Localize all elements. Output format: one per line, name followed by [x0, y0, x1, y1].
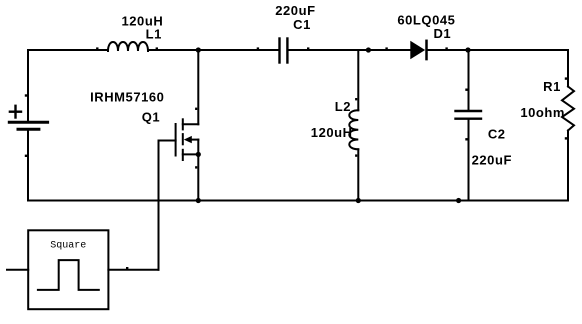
- pin nub L1 left: [96, 47, 98, 49]
- node dot bottom at L2: [356, 198, 361, 203]
- wire top rail diode to right corner: [427, 49, 569, 51]
- transistor Q1 body line: [191, 139, 199, 141]
- pin nub Q1 drain: [195, 108, 197, 110]
- node dot top at C2: [465, 47, 470, 52]
- square source right lead: [108, 269, 158, 271]
- diode D1 cathode bar: [425, 41, 428, 59]
- wire gate drop vertical: [158, 141, 160, 270]
- svg-text:120uH: 120uH: [311, 125, 353, 140]
- pin nub C2 bottom: [465, 138, 467, 140]
- node dot Q1 source: [196, 152, 201, 157]
- svg-text:Square: Square: [50, 241, 86, 252]
- transistor Q1 gate lead: [159, 140, 176, 142]
- svg-text:220uF: 220uF: [472, 153, 512, 168]
- pin nub R1 bottom: [565, 137, 567, 139]
- transistor Q1 body vertical: [197, 140, 199, 155]
- battery V1 short plate: [18, 128, 39, 131]
- inductor L2 coil: [349, 110, 358, 149]
- pin nub C1 right: [307, 47, 309, 49]
- svg-text:C2: C2: [488, 127, 506, 142]
- pin nub L1 right: [156, 47, 158, 49]
- svg-text:R1: R1: [543, 79, 561, 94]
- wire bottom rail: [28, 200, 568, 202]
- square source waveform: [38, 260, 99, 290]
- wire left vertical below battery: [27, 131, 29, 201]
- capacitor C2 plates: [456, 111, 482, 119]
- diode D1 triangle: [411, 42, 424, 59]
- square source box: [28, 230, 108, 309]
- pin nub battery top: [25, 94, 27, 96]
- wire top rail left segment: [28, 49, 108, 51]
- inductor L2 bottom wire: [357, 149, 359, 200]
- pin nub D1 left: [385, 47, 387, 49]
- svg-text:60LQ045: 60LQ045: [397, 12, 455, 27]
- wire right vertical above R1: [567, 50, 569, 87]
- pin nub L2 bottom: [355, 154, 357, 156]
- inductor L1: [108, 42, 148, 51]
- wire left vertical above battery: [27, 50, 29, 121]
- inductor L2 top wire: [357, 50, 359, 110]
- transistor Q1 channel segments: [182, 119, 184, 129]
- svg-text:D1: D1: [433, 26, 451, 41]
- node dot top at drain: [196, 47, 201, 52]
- svg-text:L2: L2: [335, 99, 351, 114]
- transistor Q1 drain vertical wire: [197, 50, 199, 124]
- square source left stub: [7, 269, 28, 271]
- battery V1 plus sign: [10, 106, 21, 118]
- resistor R1 zigzag: [562, 87, 574, 131]
- capacitor C1: [280, 39, 288, 63]
- pin nub C1 left: [257, 47, 259, 49]
- svg-text:Q1: Q1: [142, 109, 160, 124]
- pin nub Q1 source: [195, 166, 197, 168]
- transistor Q1 gate bar: [175, 124, 177, 156]
- battery V1 long plate: [9, 121, 47, 124]
- svg-text:10ohm: 10ohm: [520, 105, 565, 120]
- transistor Q1 drain horizontal: [183, 123, 199, 125]
- wire right vertical below R1: [567, 131, 569, 201]
- capacitor C2 bottom wire: [468, 120, 470, 201]
- transistor Q1 source horizontal: [183, 153, 199, 155]
- pin nub square source lead: [126, 267, 128, 269]
- pin nub battery bottom: [25, 155, 27, 157]
- capacitor C2 top wire: [468, 50, 470, 110]
- node dot bottom near C2: [456, 198, 461, 203]
- pin nub L2 top: [355, 98, 357, 100]
- node dot bottom at source: [196, 198, 201, 203]
- wire top rail C1 to diode: [289, 49, 411, 51]
- svg-text:C1: C1: [293, 17, 311, 32]
- transistor Q1 body arrowhead: [184, 136, 192, 143]
- transistor Q1 source vertical wire: [197, 154, 199, 200]
- node dot top near L2: [366, 47, 371, 52]
- wire top rail L1 to C1: [148, 49, 278, 51]
- pin nub C2 top: [465, 89, 467, 91]
- svg-text:220uF: 220uF: [275, 3, 315, 18]
- pin nub R1 top: [565, 77, 567, 79]
- pin nub D1 right: [445, 47, 447, 49]
- svg-text:L1: L1: [146, 26, 162, 41]
- svg-text:IRHM57160: IRHM57160: [90, 89, 164, 104]
